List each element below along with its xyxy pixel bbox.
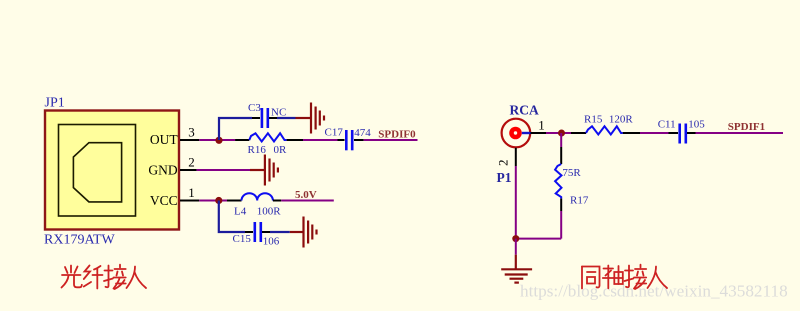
resistor R17 body bbox=[555, 164, 561, 199]
pin 1 stub bbox=[180, 200, 199, 202]
wire OUT row to R16 bbox=[199, 139, 235, 141]
inductor L4 body bbox=[242, 193, 273, 200]
svg-text:GND: GND bbox=[148, 162, 177, 177]
capacitor C11 right pin bbox=[687, 132, 696, 134]
wire C3 branch vertical bbox=[219, 118, 252, 140]
svg-text:R16: R16 bbox=[248, 144, 267, 156]
caption 同轴接入 (coax input) bbox=[582, 265, 667, 289]
wire GND row bbox=[197, 169, 250, 171]
svg-text:R17: R17 bbox=[570, 195, 589, 207]
ground symbol at C3 bbox=[296, 103, 325, 134]
svg-text:5.0V: 5.0V bbox=[295, 189, 317, 201]
earth ground symbol bbox=[501, 269, 532, 282]
svg-text:C17: C17 bbox=[325, 126, 344, 138]
earth ground stub bbox=[515, 255, 517, 269]
svg-text:OUT: OUT bbox=[150, 132, 178, 147]
svg-text:VCC: VCC bbox=[150, 193, 178, 208]
svg-text:C15: C15 bbox=[233, 233, 252, 245]
wire R17 top bbox=[560, 133, 562, 147]
svg-text:0R: 0R bbox=[274, 144, 288, 156]
pin 2 stub bbox=[180, 169, 197, 171]
svg-text:https://blog.csdn.net/weixin_4: https://blog.csdn.net/weixin_43582118 bbox=[520, 282, 788, 301]
svg-text:1: 1 bbox=[188, 185, 195, 200]
ground symbol at C15 bbox=[290, 217, 317, 248]
resistor R17 top pin bbox=[560, 147, 562, 164]
capacitor C11 plates bbox=[680, 124, 686, 144]
svg-text:SPDIF0: SPDIF0 bbox=[378, 129, 416, 141]
resistor R16 right pin bbox=[287, 139, 303, 141]
svg-text:RX179ATW: RX179ATW bbox=[44, 233, 116, 248]
svg-text:NC: NC bbox=[271, 107, 286, 119]
inductor L4 right pin bbox=[273, 200, 281, 202]
svg-text:JP1: JP1 bbox=[45, 96, 65, 111]
svg-text:P1: P1 bbox=[497, 170, 512, 185]
svg-text:106: 106 bbox=[263, 235, 280, 247]
wire VCC row to L4 bbox=[199, 200, 227, 202]
wire C15 to ground bbox=[270, 231, 290, 233]
svg-text:100R: 100R bbox=[257, 205, 282, 217]
RCA internal lead graphic bbox=[522, 132, 531, 134]
pin 2 stub (RCA) bbox=[515, 148, 517, 166]
svg-text:R15: R15 bbox=[584, 114, 603, 126]
capacitor C15 plates bbox=[255, 222, 261, 242]
capacitor C3 left pin bbox=[252, 117, 260, 119]
capacitor C17 plates bbox=[346, 130, 352, 150]
wire 5.0V power net bbox=[281, 200, 334, 202]
svg-text:C3: C3 bbox=[248, 102, 261, 114]
wire R15 to C11 bbox=[640, 132, 669, 134]
ground symbol at GND pin bbox=[250, 155, 278, 186]
wire SPDIF0 net bbox=[364, 139, 418, 141]
svg-text:1: 1 bbox=[538, 117, 545, 132]
junction node VCC bbox=[215, 197, 222, 204]
wire R17 bottom bbox=[560, 211, 562, 239]
wire P1 pin2 down bbox=[515, 166, 517, 239]
JP1 optical connector polygon graphic bbox=[73, 143, 121, 202]
svg-text:L4: L4 bbox=[234, 205, 247, 217]
svg-text:474: 474 bbox=[354, 127, 371, 139]
pin 1 stub (RCA) bbox=[531, 132, 547, 134]
caption 光纤接入 (optical input) bbox=[62, 265, 147, 289]
svg-text:SPDIF1: SPDIF1 bbox=[728, 121, 765, 133]
wire RCA to R15 bbox=[546, 132, 571, 134]
svg-text:2: 2 bbox=[496, 160, 511, 167]
junction node bottom bbox=[512, 235, 519, 242]
JP1 inner rectangle graphic bbox=[59, 125, 136, 217]
RCA center dot bbox=[509, 127, 522, 140]
wire to earth ground bbox=[515, 239, 517, 255]
RCA center hole bbox=[514, 131, 517, 134]
capacitor C17 right pin bbox=[354, 139, 364, 141]
wire bottom horizontal bbox=[516, 238, 561, 240]
capacitor C17 left pin bbox=[338, 139, 345, 141]
wire C15 branch vertical bbox=[219, 201, 245, 233]
pin 3 stub bbox=[180, 139, 199, 141]
svg-text:2: 2 bbox=[188, 155, 195, 170]
wire R16 to C17 bbox=[303, 139, 338, 141]
connector JP1 body bbox=[45, 111, 179, 230]
capacitor C3 right pin bbox=[269, 117, 277, 119]
junction node RCA net bbox=[558, 130, 565, 137]
resistor R15 left pin bbox=[571, 132, 586, 134]
resistor R15 right pin bbox=[623, 132, 640, 134]
capacitor C11 left pin bbox=[669, 132, 679, 134]
capacitor C15 left pin bbox=[245, 231, 253, 233]
svg-text:105: 105 bbox=[688, 119, 705, 131]
svg-text:C11: C11 bbox=[658, 119, 676, 131]
resistor R16 body bbox=[249, 133, 286, 141]
svg-text:120R: 120R bbox=[609, 114, 634, 126]
capacitor C15 right pin bbox=[262, 231, 270, 233]
resistor R16 left pin bbox=[235, 139, 249, 141]
capacitor C3 plates bbox=[262, 108, 268, 128]
resistor R17 bottom pin bbox=[560, 199, 562, 211]
inductor L4 left pin bbox=[227, 200, 242, 202]
wire SPDIF1 net bbox=[696, 132, 784, 134]
resistor R15 body bbox=[586, 126, 623, 134]
svg-text:3: 3 bbox=[188, 125, 195, 140]
wire C3 to ground bbox=[277, 117, 296, 119]
svg-text:RCA: RCA bbox=[510, 102, 539, 117]
junction node OUT bbox=[215, 137, 222, 144]
connector P1 RCA ring bbox=[502, 119, 531, 148]
svg-text:75R: 75R bbox=[562, 167, 581, 179]
